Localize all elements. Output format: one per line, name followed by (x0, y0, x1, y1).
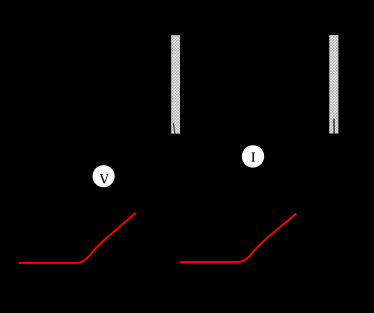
I-V characteristic curve (right plot) (180, 213, 297, 262)
voltmeter V (93, 165, 115, 187)
sample bar 2 (hatched contact, right circuit) (329, 35, 338, 133)
probe tip P1 (in sample bar 1) (173, 123, 175, 133)
sample bar 1 (hatched contact, left circuit) (171, 35, 180, 133)
ammeter I (242, 145, 264, 167)
probe tip P2 (in sample bar 2) (333, 119, 335, 134)
I-V characteristic curve (left plot) (19, 213, 136, 263)
